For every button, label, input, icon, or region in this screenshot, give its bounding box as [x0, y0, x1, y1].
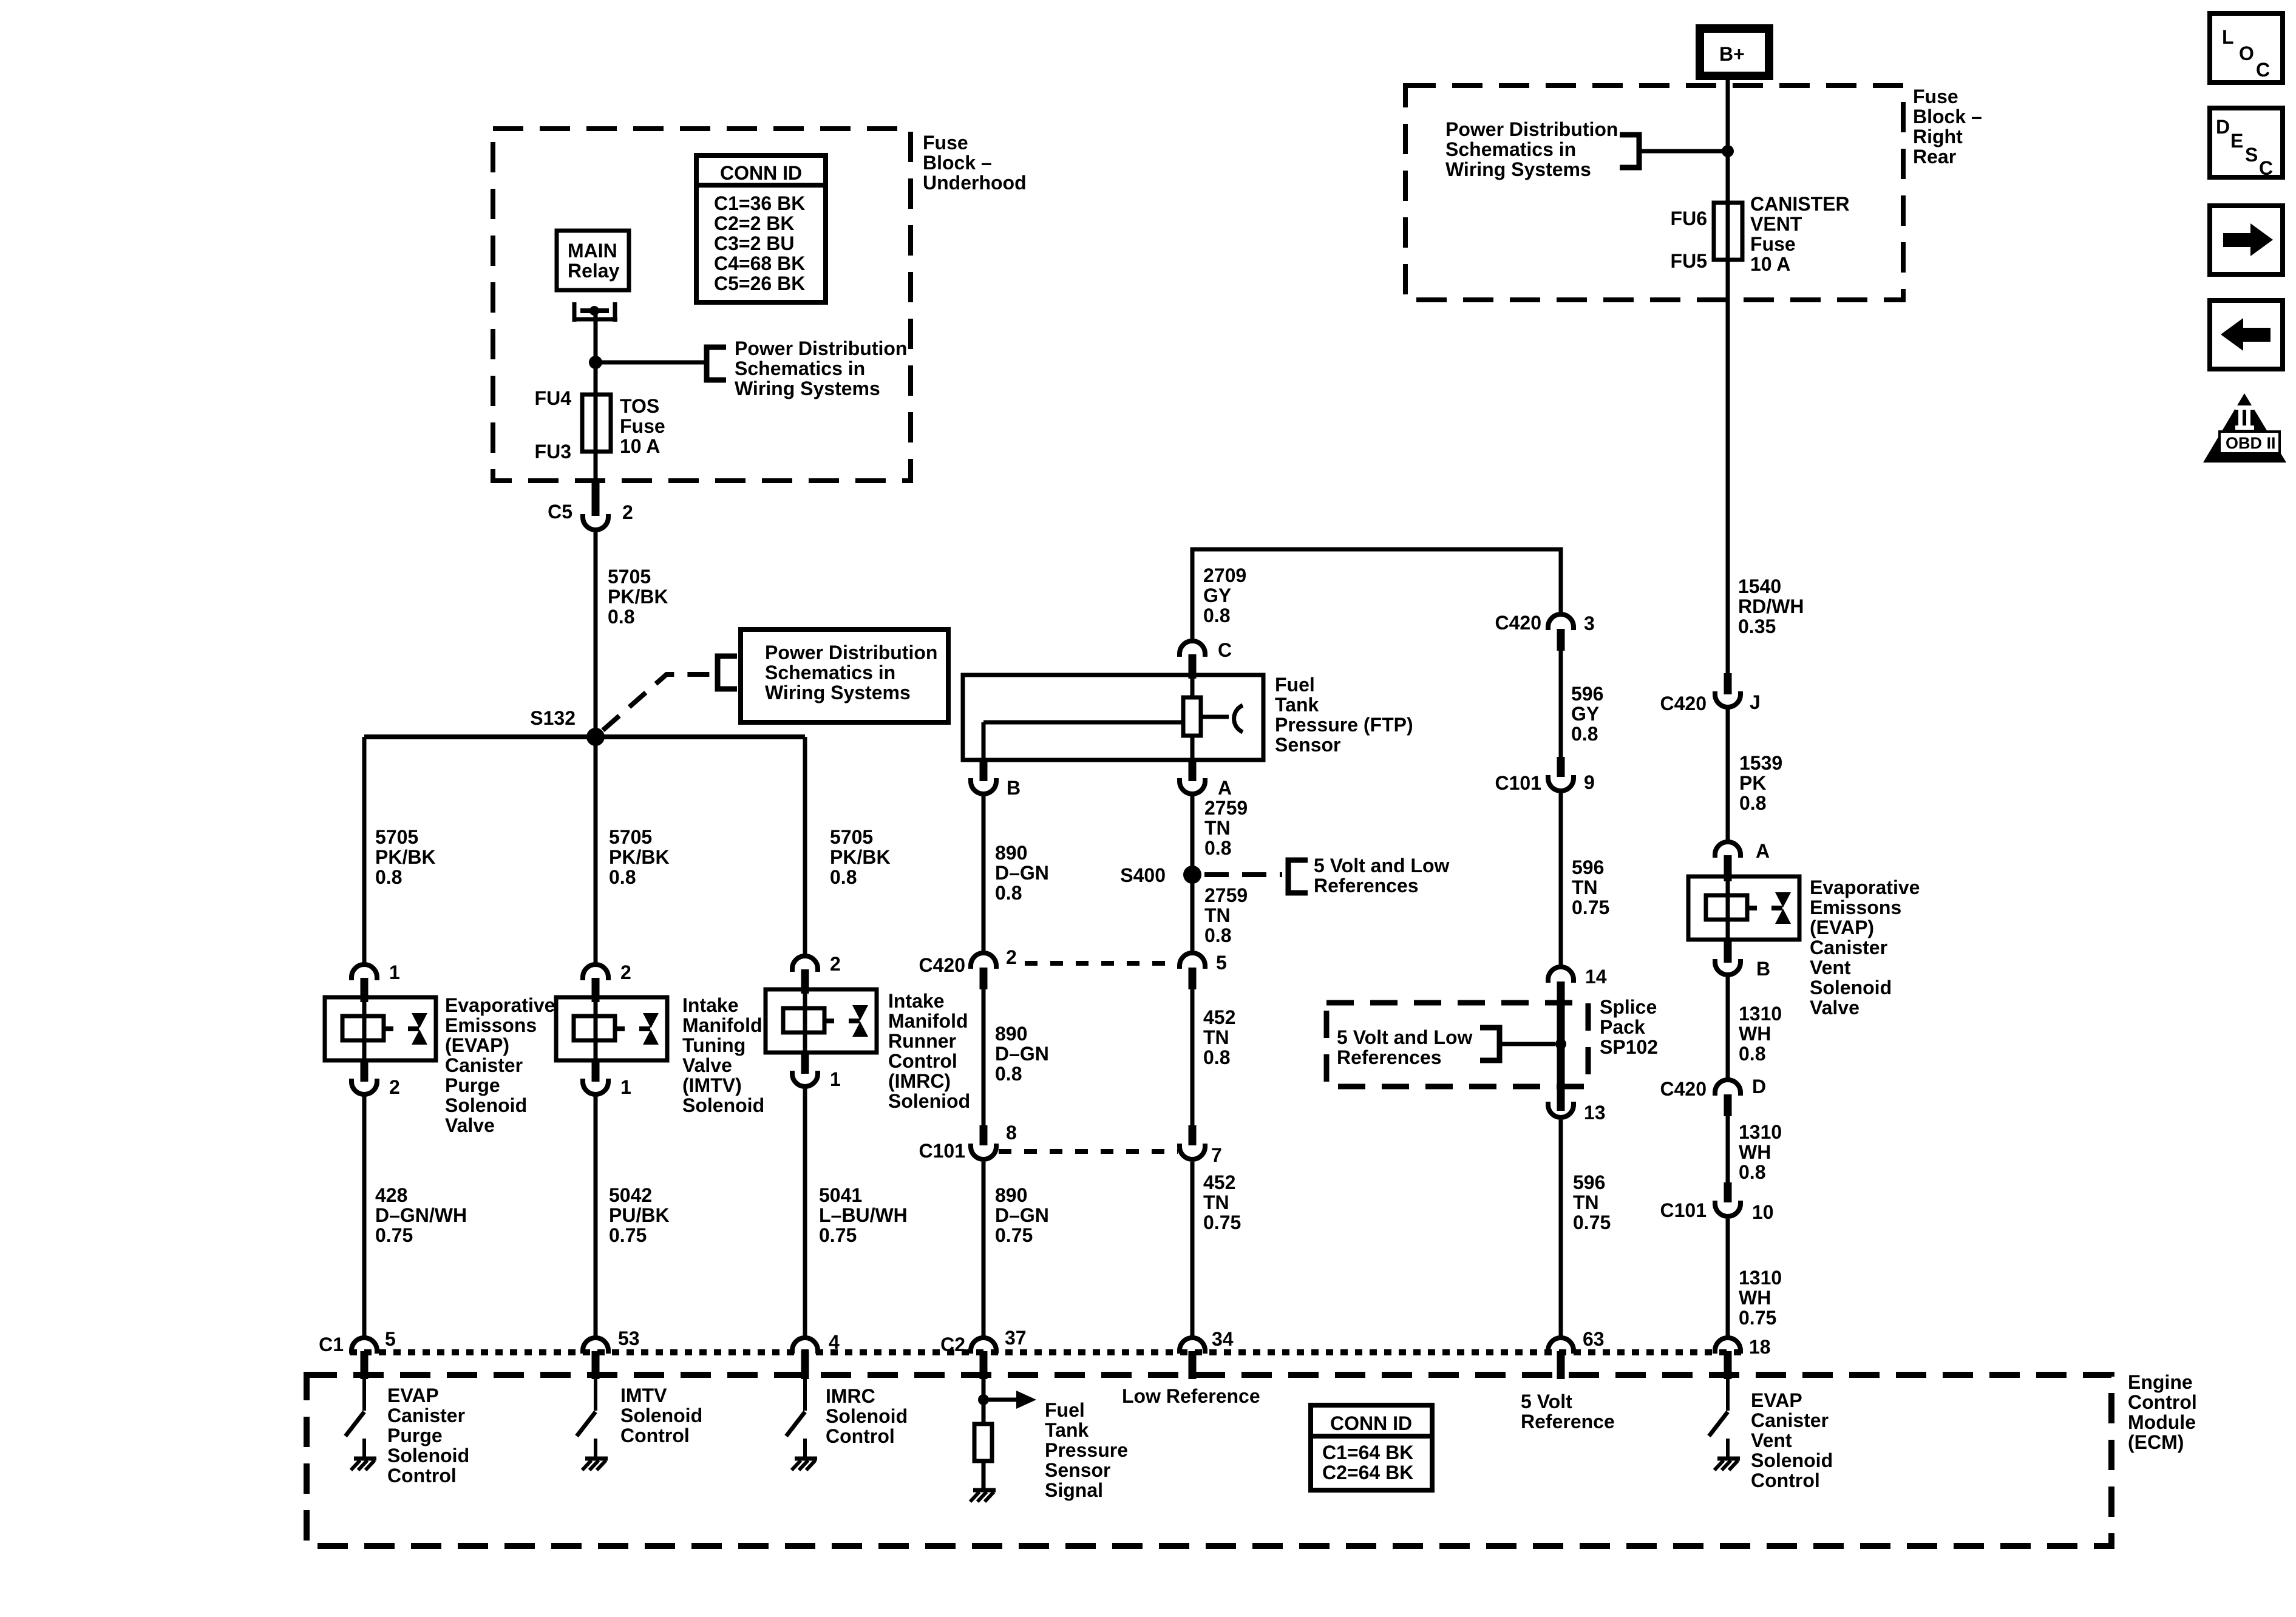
- svg-text:Right: Right: [1913, 126, 1963, 147]
- svg-text:2: 2: [1006, 946, 1017, 968]
- svg-text:1539: 1539: [1739, 752, 1782, 774]
- svg-text:S400: S400: [1120, 864, 1166, 886]
- svg-text:Sensor: Sensor: [1275, 734, 1340, 756]
- svg-text:596: 596: [1572, 856, 1604, 878]
- svg-text:0.35: 0.35: [1738, 615, 1776, 637]
- svg-text:C101: C101: [919, 1140, 966, 1162]
- svg-text:7: 7: [1211, 1144, 1222, 1166]
- svg-text:Solenoid: Solenoid: [1810, 977, 1892, 998]
- svg-text:Emissons: Emissons: [445, 1014, 537, 1036]
- svg-text:0.8: 0.8: [608, 606, 634, 628]
- svg-text:Manifold: Manifold: [682, 1014, 763, 1036]
- svg-text:5705: 5705: [375, 826, 418, 848]
- svg-text:0.8: 0.8: [375, 866, 402, 888]
- svg-text:Evaporative: Evaporative: [1810, 876, 1920, 898]
- svg-text:Reference: Reference: [1521, 1411, 1615, 1432]
- svg-text:Fuse: Fuse: [620, 415, 665, 437]
- svg-text:Block –: Block –: [1913, 106, 1982, 127]
- svg-text:0.8: 0.8: [830, 866, 857, 888]
- svg-text:3: 3: [1584, 612, 1595, 634]
- svg-text:10 A: 10 A: [1750, 253, 1790, 275]
- svg-text:C1: C1: [319, 1334, 344, 1355]
- svg-text:2: 2: [622, 501, 633, 523]
- svg-text:Canister: Canister: [387, 1405, 465, 1426]
- svg-text:C420: C420: [1660, 693, 1707, 714]
- svg-text:C2: C2: [940, 1334, 965, 1355]
- svg-text:0.75: 0.75: [1203, 1212, 1241, 1233]
- svg-text:C101: C101: [1495, 772, 1542, 794]
- svg-text:0.8: 0.8: [995, 1063, 1022, 1085]
- svg-text:53: 53: [618, 1327, 640, 1349]
- svg-text:C1=64 BK: C1=64 BK: [1322, 1442, 1413, 1463]
- svg-text:D–GN/WH: D–GN/WH: [375, 1204, 467, 1226]
- svg-text:(EVAP): (EVAP): [1810, 917, 1874, 938]
- svg-text:1310: 1310: [1739, 1003, 1782, 1025]
- svg-text:63: 63: [1583, 1328, 1605, 1350]
- svg-text:Fuse: Fuse: [923, 132, 968, 154]
- svg-text:L–BU/WH: L–BU/WH: [819, 1204, 908, 1226]
- svg-text:FU4: FU4: [535, 387, 572, 409]
- svg-text:18: 18: [1749, 1336, 1771, 1358]
- svg-text:Tuning: Tuning: [682, 1034, 746, 1056]
- svg-text:Rear: Rear: [1913, 146, 1956, 168]
- svg-text:Engine: Engine: [2128, 1371, 2193, 1393]
- svg-text:S: S: [2245, 144, 2258, 166]
- svg-text:2709: 2709: [1203, 564, 1246, 586]
- svg-text:5042: 5042: [609, 1184, 652, 1206]
- svg-text:IMRC: IMRC: [826, 1385, 875, 1407]
- svg-text:Control: Control: [387, 1465, 457, 1486]
- svg-text:CONN ID: CONN ID: [1330, 1412, 1412, 1434]
- svg-text:FU3: FU3: [535, 441, 571, 463]
- svg-text:890: 890: [995, 1184, 1027, 1206]
- svg-text:Pressure (FTP): Pressure (FTP): [1275, 714, 1413, 736]
- svg-text:34: 34: [1212, 1328, 1234, 1350]
- svg-text:0.75: 0.75: [375, 1224, 413, 1246]
- svg-text:D–GN: D–GN: [995, 862, 1049, 884]
- svg-text:5 Volt: 5 Volt: [1521, 1391, 1572, 1412]
- svg-text:0.8: 0.8: [1204, 837, 1231, 859]
- svg-text:Fuse: Fuse: [1750, 233, 1796, 255]
- svg-text:890: 890: [995, 1023, 1027, 1045]
- svg-text:C1=36 BK: C1=36 BK: [714, 192, 805, 214]
- svg-text:Sensor: Sensor: [1045, 1459, 1110, 1481]
- svg-text:(ECM): (ECM): [2128, 1431, 2184, 1453]
- svg-text:SP102: SP102: [1600, 1036, 1658, 1058]
- svg-text:0.8: 0.8: [1739, 1161, 1765, 1183]
- svg-text:0.8: 0.8: [1204, 924, 1231, 946]
- svg-text:Canister: Canister: [1810, 937, 1887, 958]
- svg-text:E: E: [2230, 130, 2243, 152]
- svg-text:Solenoid: Solenoid: [1751, 1449, 1833, 1471]
- svg-text:8: 8: [1006, 1122, 1017, 1144]
- svg-text:C4=68 BK: C4=68 BK: [714, 253, 805, 274]
- svg-text:Solenoid: Solenoid: [682, 1094, 764, 1116]
- svg-text:452: 452: [1203, 1006, 1235, 1028]
- svg-text:Intake: Intake: [888, 990, 944, 1012]
- svg-text:Pressure: Pressure: [1045, 1439, 1128, 1461]
- svg-text:Control: Control: [888, 1050, 957, 1072]
- svg-text:Valve: Valve: [682, 1054, 732, 1076]
- svg-text:(IMRC): (IMRC): [888, 1070, 951, 1092]
- svg-text:PU/BK: PU/BK: [609, 1204, 670, 1226]
- svg-text:PK: PK: [1739, 772, 1766, 794]
- svg-text:Emissons: Emissons: [1810, 897, 1901, 918]
- svg-text:IMTV: IMTV: [620, 1385, 667, 1406]
- svg-text:C2=2 BK: C2=2 BK: [714, 212, 795, 234]
- svg-text:0.75: 0.75: [819, 1224, 857, 1246]
- svg-text:References: References: [1337, 1046, 1442, 1068]
- svg-text:Wiring Systems: Wiring Systems: [1445, 158, 1591, 180]
- svg-text:0.75: 0.75: [609, 1224, 647, 1246]
- svg-text:GY: GY: [1571, 703, 1599, 725]
- svg-text:C420: C420: [919, 954, 966, 976]
- svg-text:A: A: [1756, 840, 1770, 862]
- svg-text:0.75: 0.75: [1572, 897, 1609, 918]
- svg-text:1540: 1540: [1738, 575, 1781, 597]
- svg-text:10 A: 10 A: [620, 435, 660, 457]
- svg-text:C: C: [2256, 59, 2270, 81]
- svg-text:Intake: Intake: [682, 994, 738, 1016]
- svg-text:PK/BK: PK/BK: [375, 846, 436, 868]
- svg-text:RD/WH: RD/WH: [1738, 595, 1804, 617]
- svg-text:Signal: Signal: [1045, 1479, 1103, 1501]
- svg-text:C5: C5: [548, 501, 572, 523]
- svg-text:TOS: TOS: [620, 395, 659, 417]
- svg-text:D: D: [2216, 116, 2230, 138]
- svg-text:Solenoid: Solenoid: [620, 1405, 702, 1426]
- svg-text:Splice: Splice: [1600, 996, 1657, 1018]
- svg-text:Solenoid: Solenoid: [445, 1094, 527, 1116]
- svg-text:Control: Control: [826, 1425, 895, 1447]
- svg-text:4: 4: [829, 1331, 840, 1353]
- svg-text:Schematics in: Schematics in: [1445, 138, 1576, 160]
- svg-text:5041: 5041: [819, 1184, 862, 1206]
- svg-text:0.75: 0.75: [1739, 1307, 1776, 1329]
- svg-text:Wiring Systems: Wiring Systems: [735, 378, 880, 399]
- svg-text:D: D: [1752, 1076, 1766, 1097]
- svg-text:2: 2: [620, 961, 631, 983]
- svg-text:C420: C420: [1660, 1078, 1707, 1100]
- svg-text:(IMTV): (IMTV): [682, 1074, 742, 1096]
- svg-text:TN: TN: [1204, 817, 1231, 839]
- svg-text:Module: Module: [2128, 1411, 2196, 1433]
- svg-text:13: 13: [1584, 1102, 1606, 1124]
- svg-text:596: 596: [1571, 683, 1603, 705]
- svg-text:5705: 5705: [830, 826, 873, 848]
- svg-text:1: 1: [830, 1068, 841, 1090]
- svg-text:Purge: Purge: [445, 1074, 500, 1096]
- svg-text:PK/BK: PK/BK: [609, 846, 670, 868]
- svg-text:Schematics in: Schematics in: [765, 662, 895, 683]
- svg-text:B+: B+: [1719, 43, 1745, 65]
- svg-text:MAIN: MAIN: [568, 240, 617, 262]
- svg-text:(EVAP): (EVAP): [445, 1034, 509, 1056]
- svg-text:D–GN: D–GN: [995, 1043, 1049, 1065]
- svg-text:0.8: 0.8: [1739, 1043, 1765, 1065]
- svg-text:428: 428: [375, 1184, 407, 1206]
- svg-text:14: 14: [1585, 966, 1607, 988]
- svg-text:C5=26 BK: C5=26 BK: [714, 273, 805, 294]
- svg-text:2759: 2759: [1204, 797, 1248, 819]
- svg-text:5: 5: [385, 1328, 396, 1350]
- svg-text:C: C: [1218, 639, 1232, 661]
- svg-text:Vent: Vent: [1751, 1429, 1792, 1451]
- svg-text:1: 1: [620, 1076, 631, 1098]
- svg-text:Soleniod: Soleniod: [888, 1090, 970, 1112]
- svg-text:2759: 2759: [1204, 884, 1248, 906]
- svg-text:0.8: 0.8: [1203, 605, 1230, 626]
- svg-text:Canister: Canister: [1751, 1409, 1829, 1431]
- svg-text:C420: C420: [1495, 612, 1542, 634]
- svg-text:Manifold: Manifold: [888, 1010, 968, 1032]
- svg-text:Solenoid: Solenoid: [826, 1405, 908, 1427]
- svg-text:Evaporative: Evaporative: [445, 994, 555, 1016]
- svg-text:A: A: [1218, 777, 1232, 799]
- svg-text:Fuel: Fuel: [1045, 1399, 1085, 1421]
- svg-text:WH: WH: [1739, 1141, 1771, 1163]
- svg-text:O: O: [2239, 42, 2254, 64]
- svg-text:Power Distribution: Power Distribution: [765, 642, 937, 663]
- svg-text:B: B: [1756, 958, 1770, 980]
- svg-text:37: 37: [1005, 1327, 1027, 1349]
- svg-text:L: L: [2222, 26, 2234, 48]
- svg-text:Runner: Runner: [888, 1030, 956, 1052]
- svg-text:Pack: Pack: [1600, 1016, 1645, 1038]
- svg-text:TN: TN: [1203, 1026, 1229, 1048]
- svg-text:WH: WH: [1739, 1287, 1771, 1309]
- svg-text:Schematics in: Schematics in: [735, 358, 865, 379]
- svg-text:D–GN: D–GN: [995, 1204, 1049, 1226]
- svg-text:TN: TN: [1573, 1192, 1599, 1213]
- svg-text:J: J: [1750, 691, 1761, 713]
- svg-text:Tank: Tank: [1275, 694, 1319, 716]
- svg-text:9: 9: [1584, 771, 1595, 793]
- svg-text:References: References: [1314, 875, 1419, 897]
- svg-text:2: 2: [389, 1076, 400, 1098]
- svg-text:TN: TN: [1204, 904, 1231, 926]
- svg-text:PK/BK: PK/BK: [830, 846, 891, 868]
- svg-text:5: 5: [1216, 952, 1227, 974]
- svg-text:FU6: FU6: [1671, 208, 1707, 229]
- svg-text:0.8: 0.8: [1739, 792, 1766, 814]
- svg-text:5705: 5705: [608, 566, 651, 588]
- svg-text:0.8: 0.8: [609, 866, 636, 888]
- svg-text:5705: 5705: [609, 826, 652, 848]
- svg-text:C2=64 BK: C2=64 BK: [1322, 1462, 1413, 1483]
- svg-text:CANISTER: CANISTER: [1750, 193, 1850, 215]
- svg-text:Fuel: Fuel: [1275, 674, 1315, 696]
- svg-text:0.75: 0.75: [1573, 1212, 1611, 1233]
- svg-text:S132: S132: [530, 707, 576, 729]
- svg-text:TN: TN: [1203, 1192, 1229, 1213]
- svg-text:EVAP: EVAP: [1751, 1389, 1802, 1411]
- svg-text:0.75: 0.75: [995, 1224, 1033, 1246]
- svg-text:Canister: Canister: [445, 1054, 523, 1076]
- svg-text:TN: TN: [1572, 876, 1598, 898]
- svg-text:Purge: Purge: [387, 1425, 443, 1446]
- svg-text:0.8: 0.8: [1571, 723, 1598, 745]
- svg-text:Low Reference: Low Reference: [1122, 1385, 1260, 1407]
- svg-text:Control: Control: [620, 1425, 690, 1446]
- svg-text:5 Volt and Low: 5 Volt and Low: [1314, 855, 1450, 876]
- svg-text:EVAP: EVAP: [387, 1385, 439, 1406]
- svg-text:C: C: [2259, 157, 2273, 179]
- svg-text:1: 1: [389, 961, 400, 983]
- svg-text:452: 452: [1203, 1171, 1235, 1193]
- svg-text:0.8: 0.8: [1203, 1046, 1230, 1068]
- svg-text:Valve: Valve: [1810, 997, 1860, 1019]
- svg-text:890: 890: [995, 842, 1027, 864]
- svg-text:Power Distribution: Power Distribution: [1445, 118, 1618, 140]
- svg-text:Relay: Relay: [568, 260, 620, 282]
- svg-text:PK/BK: PK/BK: [608, 586, 668, 608]
- svg-text:CONN ID: CONN ID: [720, 162, 802, 184]
- svg-text:2: 2: [830, 953, 841, 975]
- svg-text:Wiring Systems: Wiring Systems: [765, 682, 911, 703]
- svg-text:Valve: Valve: [445, 1114, 495, 1136]
- svg-text:FU5: FU5: [1671, 250, 1707, 272]
- svg-text:1310: 1310: [1739, 1121, 1782, 1143]
- svg-text:C101: C101: [1660, 1199, 1707, 1221]
- svg-text:Solenoid: Solenoid: [387, 1445, 469, 1466]
- svg-text:Fuse: Fuse: [1913, 86, 1958, 107]
- svg-text:10: 10: [1752, 1201, 1774, 1223]
- svg-text:Underhood: Underhood: [923, 172, 1027, 194]
- svg-text:C3=2 BU: C3=2 BU: [714, 232, 795, 254]
- svg-text:0.8: 0.8: [995, 882, 1022, 904]
- svg-text:Tank: Tank: [1045, 1419, 1089, 1441]
- svg-text:OBD II: OBD II: [2226, 434, 2276, 452]
- svg-text:B: B: [1007, 777, 1021, 799]
- svg-text:5 Volt and Low: 5 Volt and Low: [1337, 1026, 1473, 1048]
- svg-text:GY: GY: [1203, 585, 1231, 606]
- svg-text:Control: Control: [2128, 1391, 2197, 1413]
- svg-text:VENT: VENT: [1750, 213, 1802, 235]
- svg-text:Power Distribution: Power Distribution: [735, 337, 907, 359]
- svg-text:Control: Control: [1751, 1470, 1820, 1491]
- svg-text:596: 596: [1573, 1171, 1605, 1193]
- svg-text:Block –: Block –: [923, 152, 992, 174]
- svg-text:Vent: Vent: [1810, 957, 1851, 978]
- svg-text:WH: WH: [1739, 1023, 1771, 1045]
- svg-text:1310: 1310: [1739, 1267, 1782, 1289]
